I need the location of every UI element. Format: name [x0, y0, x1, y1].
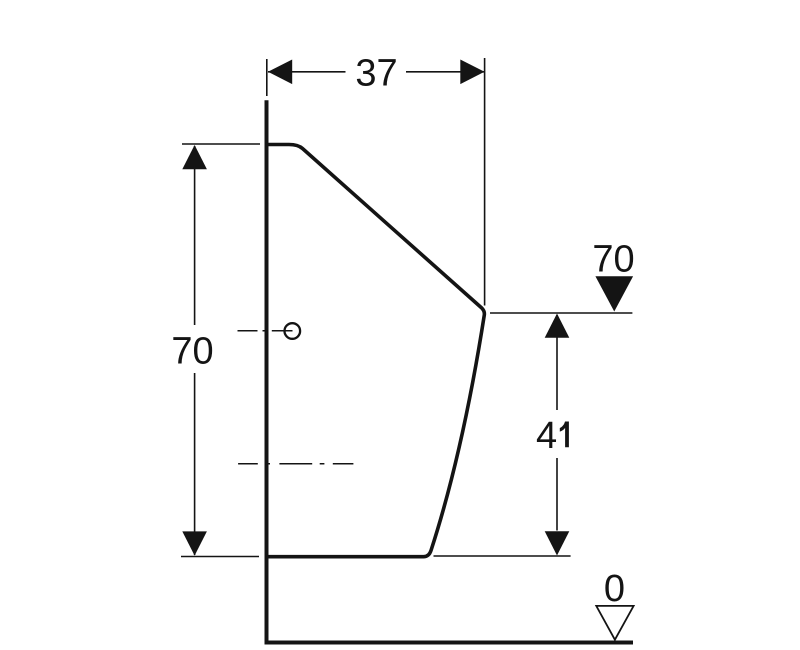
- dim 41: top arrowhead: [545, 314, 570, 338]
- level line 70 (right): [490, 312, 632, 314]
- level marker 0: open triangle: [596, 606, 633, 640]
- level marker 70: filled triangle: [595, 276, 633, 311]
- dim 37: left extension line: [266, 59, 268, 96]
- wall line: [265, 100, 269, 642]
- floor line: [265, 641, 634, 645]
- dim 70 left: dimension line: [194, 146, 196, 555]
- urinal profile outline: [267, 145, 484, 557]
- dim 37: right extension line: [484, 58, 486, 306]
- dim 37: dimension line: [268, 71, 485, 73]
- dim 70 left: top arrowhead: [182, 145, 207, 169]
- dim 41: bottom reference line: [434, 555, 571, 557]
- svg-text:70: 70: [592, 239, 634, 281]
- fixing hole centerline (dash-dot): [238, 330, 293, 332]
- fixing hole circle: [285, 323, 301, 339]
- svg-text:4: 4: [536, 415, 557, 457]
- dim 70 left: bottom arrowhead: [182, 531, 207, 555]
- svg-text:0: 0: [604, 568, 625, 610]
- dim 41: dimension line: [556, 315, 558, 531]
- dim 70 left: top extension line: [182, 143, 260, 145]
- lower centerline (dash-dot): [238, 463, 353, 465]
- dim 41: digit 1 (drawn, helvetica style without foot serif): [560, 422, 569, 448]
- dim 37: right arrowhead: [460, 60, 484, 85]
- svg-text:70: 70: [171, 331, 213, 373]
- dim 41: bottom arrowhead: [545, 531, 570, 555]
- dim 37: left arrowhead: [268, 60, 292, 85]
- dim 70 left: bottom extension line: [181, 556, 259, 558]
- svg-text:37: 37: [355, 53, 397, 95]
